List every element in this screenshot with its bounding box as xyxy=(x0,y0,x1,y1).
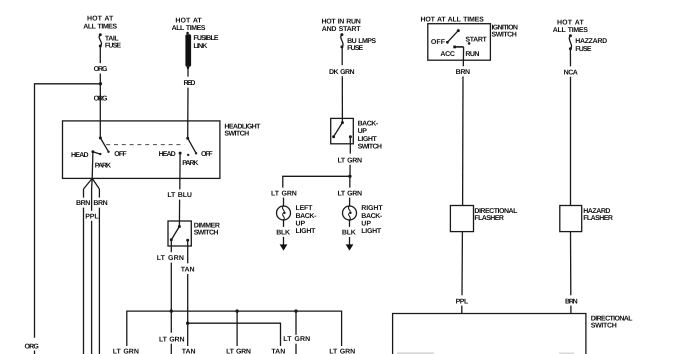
wire LT GRN from back-up switch xyxy=(349,137,351,154)
wire PPL to directional switch xyxy=(461,306,463,314)
wire BRN to directional switch xyxy=(570,306,572,314)
svg-text:FUSE: FUSE xyxy=(347,45,363,52)
svg-text:ORG: ORG xyxy=(25,343,40,350)
wire BRN left continues xyxy=(83,208,85,354)
svg-text:TAN: TAN xyxy=(271,348,285,354)
svg-text:LT GRN: LT GRN xyxy=(226,348,251,354)
contact TAN (dimmer) xyxy=(186,239,189,242)
wire BRN from hazard flasher xyxy=(570,232,572,296)
svg-text:TAN: TAN xyxy=(182,348,196,354)
svg-text:HEAD: HEAD xyxy=(159,151,176,158)
svg-text:LIGHT: LIGHT xyxy=(361,228,382,235)
svg-text:LT GRN: LT GRN xyxy=(159,336,185,343)
wire LT GRN from dimmer xyxy=(170,240,172,252)
svg-text:BACK-: BACK- xyxy=(296,213,318,220)
svg-text:FLASHER: FLASHER xyxy=(583,215,613,222)
svg-text:FUSE: FUSE xyxy=(575,46,592,53)
svg-text:ORG: ORG xyxy=(94,96,108,103)
wire ORG branch left xyxy=(35,84,101,338)
svg-text:SWITCH: SWITCH xyxy=(492,32,517,39)
dimmer switch lever xyxy=(170,225,181,241)
back-up light switch box xyxy=(331,118,354,143)
svg-text:FUSE: FUSE xyxy=(105,43,122,50)
wire RED upper xyxy=(187,68,189,77)
ignition switch box xyxy=(428,24,491,61)
svg-text:UP: UP xyxy=(296,220,306,227)
contact bar ACC-RUN xyxy=(453,46,463,49)
wire drop 296 stub xyxy=(295,344,297,354)
wire TAN to bus2 xyxy=(187,274,189,346)
svg-text:HOT AT: HOT AT xyxy=(557,20,585,27)
svg-text:LT GRN: LT GRN xyxy=(157,255,184,262)
svg-text:FLASHER: FLASHER xyxy=(474,215,503,222)
svg-text:BRN: BRN xyxy=(93,200,107,207)
wire fork to three harness wires xyxy=(84,178,100,189)
junction ORG branch xyxy=(99,82,102,85)
svg-text:BLK: BLK xyxy=(276,230,290,237)
label DIRECTIONAL FLASHER xyxy=(474,208,518,222)
svg-text:HOT AT: HOT AT xyxy=(175,18,202,25)
lamp LEFT BACK-UP LIGHT xyxy=(277,206,291,220)
wire PPL continues xyxy=(91,221,93,354)
svg-text:HOT AT: HOT AT xyxy=(87,15,114,22)
junction dot bus1 drop 2 xyxy=(294,309,297,312)
svg-text:RED: RED xyxy=(183,80,195,87)
svg-text:DIRECTIONAL: DIRECTIONAL xyxy=(474,208,518,215)
wire NCA upper xyxy=(569,49,571,67)
back-up light switch lever xyxy=(332,121,344,138)
wire LT GRN to junction xyxy=(349,165,351,177)
label BU LMPS FUSE xyxy=(347,38,376,52)
svg-text:BU LMPS: BU LMPS xyxy=(347,38,376,45)
wire LT GRN bottom stub xyxy=(170,344,172,354)
node HOT IN RUN AND START xyxy=(321,18,361,33)
ground (left back-up light) xyxy=(280,244,288,250)
ground (right back-up light) xyxy=(346,244,354,250)
wire drop bus1 at 296 xyxy=(295,311,297,335)
svg-text:OFF: OFF xyxy=(114,151,127,158)
label HAZARD FLASHER xyxy=(583,208,613,222)
wire LT BLU to dimmer switch xyxy=(178,200,180,227)
svg-text:LINK: LINK xyxy=(193,43,207,50)
svg-text:HAZZARD: HAZZARD xyxy=(575,38,607,45)
faint cut-off marks bottom xyxy=(397,352,574,354)
svg-text:BRN: BRN xyxy=(456,69,470,76)
node HOT AT ALL TIMES (fusible link feed) xyxy=(172,18,206,33)
svg-text:BLK: BLK xyxy=(342,230,356,237)
svg-text:BACK-: BACK- xyxy=(358,121,379,128)
wire ORG stub bottom xyxy=(34,351,36,354)
svg-text:TAN: TAN xyxy=(181,267,195,274)
wire ORG from tail fuse xyxy=(99,46,101,63)
svg-text:HAZARD: HAZARD xyxy=(583,208,610,215)
directional switch box (partial) xyxy=(393,314,586,354)
wire RED to headlight switch xyxy=(187,88,189,139)
svg-text:HEADLIGHT: HEADLIGHT xyxy=(224,123,261,130)
svg-text:HOT IN RUN: HOT IN RUN xyxy=(321,18,360,25)
wire ORG to headlight switch xyxy=(99,74,101,139)
wire DK GRN to back-up light switch xyxy=(341,76,343,122)
label DIRECTIONAL SWITCH xyxy=(591,315,633,329)
svg-text:BACK-: BACK- xyxy=(361,213,383,220)
svg-text:LT GRN: LT GRN xyxy=(329,348,355,354)
svg-text:PARK: PARK xyxy=(182,160,198,167)
svg-text:IGNITION: IGNITION xyxy=(492,25,518,32)
svg-text:LT GRN: LT GRN xyxy=(271,190,297,197)
bus wire 2 (TAN distribution) xyxy=(188,323,281,346)
wire NCA to hazard flasher xyxy=(570,77,572,206)
contact START xyxy=(468,42,471,45)
dashed link between switch poles xyxy=(106,144,184,146)
junction dot back-up lights xyxy=(348,175,351,178)
svg-text:AND START: AND START xyxy=(322,26,361,33)
wire BRN right continues xyxy=(98,208,100,354)
wire to left lamp xyxy=(283,198,285,206)
wire branch to left back-up light xyxy=(283,176,350,187)
svg-text:PPL: PPL xyxy=(85,213,99,220)
svg-text:PPL: PPL xyxy=(456,298,469,305)
svg-text:DIRECTIONAL: DIRECTIONAL xyxy=(591,315,633,322)
svg-text:UP: UP xyxy=(361,220,371,227)
wire BRN from ignition xyxy=(462,47,464,66)
svg-text:LIGHT: LIGHT xyxy=(296,228,317,235)
switch pole 1 (left) lever xyxy=(99,137,110,154)
fusible link symbol xyxy=(185,32,191,69)
label RIGHT BACK-UP LIGHT xyxy=(361,205,383,235)
label FUSIBLE LINK xyxy=(193,35,219,50)
svg-text:ALL TIMES: ALL TIMES xyxy=(172,25,206,32)
svg-text:LT GRN: LT GRN xyxy=(337,190,362,197)
wire from HEAD contact down xyxy=(91,152,94,179)
svg-text:RIGHT: RIGHT xyxy=(361,205,383,212)
svg-text:HOT AT ALL TIMES: HOT AT ALL TIMES xyxy=(420,16,484,23)
svg-text:LT BLU: LT BLU xyxy=(167,192,192,199)
svg-text:OFF: OFF xyxy=(431,39,446,46)
bus wire 1 (LT GRN distribution) xyxy=(127,311,342,346)
hazard flasher box xyxy=(560,206,582,232)
junction dot bus1 drop 1 xyxy=(235,309,238,312)
wire BRN (right) xyxy=(98,189,100,198)
wire to right lamp upper xyxy=(349,176,351,187)
svg-text:ACC: ACC xyxy=(440,51,454,58)
fuse HAZZARD symbol xyxy=(569,34,572,50)
svg-text:DK GRN: DK GRN xyxy=(329,69,355,76)
svg-text:SWITCH: SWITCH xyxy=(194,229,219,236)
label BACK-UP LIGHT SWITCH xyxy=(358,121,382,151)
label TAIL FUSE xyxy=(105,36,122,50)
fuse TAIL FUSE symbol xyxy=(99,33,102,47)
switch pole 2 (right) lever xyxy=(186,137,197,155)
wire LT GRN to bus xyxy=(170,263,172,333)
svg-text:BRN: BRN xyxy=(565,298,578,305)
label HAZZARD FUSE xyxy=(575,38,607,53)
wire BLK (right) xyxy=(349,220,351,227)
wire BLK right to ground xyxy=(349,237,351,245)
contact PARK (pole 2) xyxy=(187,154,189,156)
label IGNITION SWITCH xyxy=(492,25,518,39)
svg-text:SWITCH: SWITCH xyxy=(591,323,617,330)
dimmer switch box xyxy=(168,221,191,246)
wire PPL from directional flasher xyxy=(461,232,463,296)
svg-text:BRN: BRN xyxy=(76,200,90,207)
wire BRN (left) xyxy=(83,189,85,198)
wire BLK left to ground xyxy=(283,237,285,245)
node HOT AT ALL TIMES (hazard feed) xyxy=(553,20,589,34)
wire PPL xyxy=(91,189,93,211)
directional flasher box xyxy=(450,206,473,232)
svg-text:TAIL: TAIL xyxy=(105,36,120,43)
label DIMMER SWITCH xyxy=(194,222,220,236)
label LEFT BACK-UP LIGHT xyxy=(296,205,318,235)
svg-text:HEAD: HEAD xyxy=(71,152,89,159)
wire BLK (left) xyxy=(283,220,285,227)
svg-text:RUN: RUN xyxy=(465,51,479,58)
node HOT AT ALL TIMES (tail fuse feed) xyxy=(83,15,117,30)
svg-text:LT GRN: LT GRN xyxy=(113,348,139,354)
lamp RIGHT BACK-UP LIGHT xyxy=(343,206,357,220)
svg-text:ALL TIMES: ALL TIMES xyxy=(553,27,589,34)
wire drop bus1 at 237 xyxy=(236,311,238,346)
svg-text:ALL TIMES: ALL TIMES xyxy=(83,23,117,30)
wire LT BLU from HEAD contact xyxy=(179,153,181,189)
ignition switch lever xyxy=(446,29,460,44)
svg-text:LT GRN: LT GRN xyxy=(283,336,310,343)
contact output (back-up switch) xyxy=(349,135,352,138)
svg-text:LT GRN: LT GRN xyxy=(337,158,362,165)
wire DK GRN upper xyxy=(341,47,343,65)
wire BRN to directional flasher xyxy=(462,76,464,205)
svg-text:PARK: PARK xyxy=(95,163,111,170)
svg-text:ORG: ORG xyxy=(94,66,108,73)
svg-text:FUSIBLE: FUSIBLE xyxy=(193,35,219,42)
svg-text:NCA: NCA xyxy=(564,70,578,77)
svg-text:OFF: OFF xyxy=(201,151,213,158)
headlight switch box xyxy=(63,121,220,178)
contact HEAD (pole 2) xyxy=(179,152,182,155)
svg-text:UP: UP xyxy=(358,128,368,135)
svg-text:LEFT: LEFT xyxy=(296,205,314,212)
svg-text:DIMMER: DIMMER xyxy=(194,222,220,229)
svg-text:SWITCH: SWITCH xyxy=(358,144,382,151)
junction dot bus2/TAN xyxy=(186,322,189,325)
contact HEAD (pole 1) xyxy=(91,150,101,155)
junction dot bus1/LT GRN xyxy=(170,309,173,312)
wire TAN from dimmer xyxy=(187,240,189,263)
wire to right lamp xyxy=(349,198,351,206)
svg-text:LIGHT: LIGHT xyxy=(358,136,378,143)
svg-text:SWITCH: SWITCH xyxy=(224,131,249,138)
label HEADLIGHT SWITCH xyxy=(224,123,261,137)
fuse BU LMPS symbol xyxy=(340,33,343,48)
